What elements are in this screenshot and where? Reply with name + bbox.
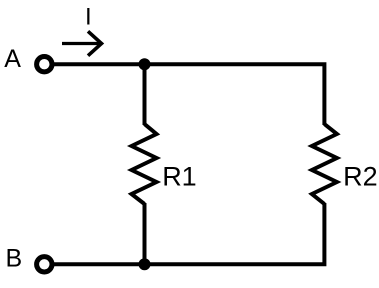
svg-text:B: B (6, 244, 23, 272)
svg-text:R1: R1 (162, 161, 197, 191)
resistor R1 (zigzag) (132, 124, 157, 204)
svg-text:A: A (4, 45, 21, 73)
node: bottom junction dot (139, 258, 151, 270)
resistor R2 (zigzag) (312, 124, 337, 204)
terminal A (open circle) (37, 56, 52, 71)
label I (85, 4, 92, 31)
svg-text:I: I (85, 4, 92, 31)
wire: R2 down to bottom-right corner and left to bottom junction (145, 203, 325, 264)
wire: top junction to top-right corner, down to R2 (145, 64, 325, 125)
wire: terminal A to top junction (53, 62, 144, 66)
wire: R1 to bottom junction (143, 203, 147, 264)
label B (6, 244, 23, 272)
terminal B (open circle) (37, 257, 52, 272)
wire: bottom junction to terminal B (53, 262, 144, 266)
current arrow I (62, 31, 102, 55)
label R2 (343, 161, 378, 191)
label R1 (162, 161, 197, 191)
node: top junction dot (139, 58, 151, 70)
svg-text:R2: R2 (343, 161, 378, 191)
label A (4, 45, 21, 73)
wire: top junction down to R1 (143, 64, 147, 125)
